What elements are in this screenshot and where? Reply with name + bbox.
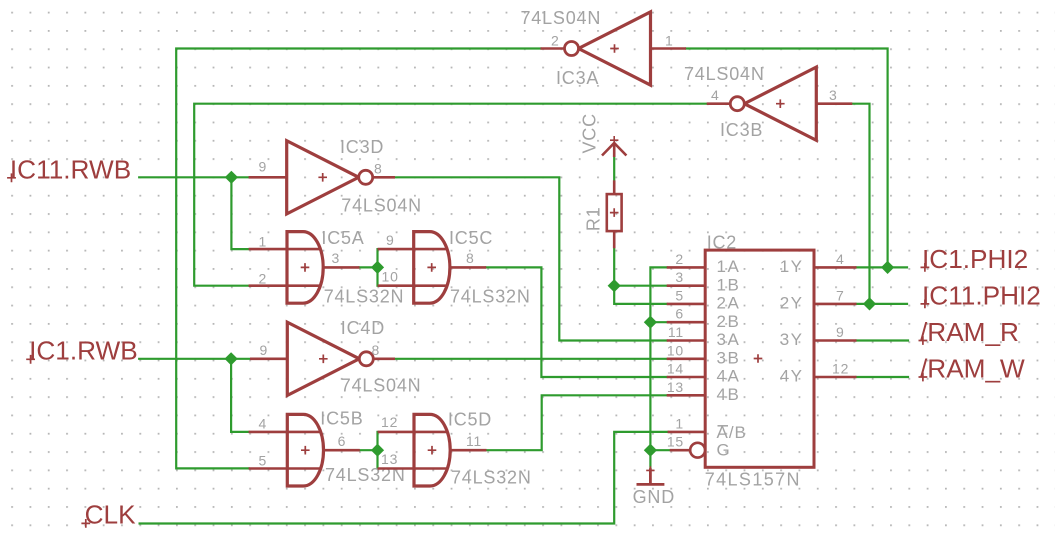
wire IC3D output to IC2 pin 11: [395, 177, 667, 340]
svg-text:1: 1: [665, 33, 674, 49]
wire branch to IC2 pin 6: [650, 321, 666, 323]
svg-text:2: 2: [259, 270, 268, 286]
resistor R1: [607, 180, 622, 248]
output pin IC5C: [450, 266, 486, 269]
wire junction to IC5D pin 12: [376, 432, 378, 450]
svg-text:3Y: 3Y: [780, 330, 804, 349]
pin 14 (4A) of IC2: [667, 376, 706, 379]
junction 2Y feedback: [863, 297, 876, 310]
svg-text:8: 8: [466, 250, 475, 266]
node IC11.RWB: [7, 154, 131, 184]
OR gate IC5B (74LS32N): [249, 414, 360, 486]
wire feedback 2Y to IC3B input: [852, 104, 869, 304]
svg-text:10: 10: [382, 269, 399, 285]
origin cross IC3D: [318, 173, 327, 182]
svg-text:74LS04N: 74LS04N: [521, 8, 602, 28]
origin cross IC5B: [301, 446, 310, 455]
wire IC1.RWB branch to IC5B pin 4: [231, 359, 249, 432]
svg-text:15: 15: [667, 433, 684, 449]
OR gate body IC5C: [414, 232, 450, 304]
wire branch to IC2 pin 15: [650, 449, 669, 451]
pin 9 (3Y) of IC2: [814, 339, 857, 342]
origin cross IC3A: [610, 44, 619, 53]
svg-text:9: 9: [836, 324, 845, 340]
input pin 1 IC5D: [378, 431, 448, 434]
origin cross IC2: [754, 354, 763, 363]
input pin 2 IC5D: [378, 467, 448, 470]
svg-text:IC3A: IC3A: [556, 68, 599, 88]
inverter bubble IC3A: [565, 42, 579, 56]
wire junction to IC5D pin 13: [376, 450, 378, 468]
input pin 2 IC5C: [378, 284, 447, 287]
inverter body IC3B: [744, 67, 816, 140]
inverter bubble IC3D: [359, 170, 373, 184]
OR gate body IC5A: [287, 232, 323, 304]
svg-text:4B: 4B: [717, 385, 741, 404]
svg-text:2: 2: [675, 251, 684, 267]
svg-text:G: G: [717, 441, 731, 460]
input pin 2 IC5B: [249, 467, 321, 470]
svg-text:IC2: IC2: [707, 233, 737, 253]
inverter IC3A (74LS04N, mirrored): [541, 12, 687, 85]
output pin IC5A: [323, 266, 359, 269]
wire net IC1.RWB to IC4D pin 9: [139, 358, 250, 360]
input pin IC3A: [651, 47, 687, 50]
multiplexer IC2 74LS157N box: [705, 250, 814, 467]
output pin IC3B: [707, 102, 731, 105]
svg-text:6: 6: [675, 306, 684, 322]
svg-text:8: 8: [372, 342, 381, 358]
inverter IC3B (74LS04N, mirrored): [707, 67, 853, 140]
ground symbol GND: [637, 466, 665, 484]
svg-text:74LS32N: 74LS32N: [450, 287, 531, 307]
junction IC1.RWB: [225, 352, 238, 365]
svg-text:11: 11: [668, 324, 684, 340]
junction IC5A output node: [371, 261, 384, 274]
svg-text:12: 12: [381, 414, 398, 430]
svg-text:IC1.PHI2: IC1.PHI2: [922, 244, 1028, 274]
svg-text:IC3B: IC3B: [720, 120, 763, 140]
origin cross IC5D: [428, 446, 437, 455]
junction GND column at pin 15: [644, 444, 657, 457]
wire IC4D output to IC2 pin 10: [395, 358, 667, 360]
output pin IC4D: [373, 357, 395, 360]
svg-text:IC5B: IC5B: [320, 409, 363, 429]
svg-text:5: 5: [675, 287, 684, 303]
pin 6 (2B) of IC2: [667, 321, 706, 324]
origin cross IC5C: [427, 263, 436, 272]
svg-text:74LS32N: 74LS32N: [324, 287, 405, 307]
svg-text:2B: 2B: [717, 312, 741, 331]
input pin 2 IC5A: [249, 284, 321, 287]
pin 5 (2A) of IC2: [667, 303, 706, 306]
svg-text:14: 14: [667, 361, 684, 377]
svg-text:9: 9: [260, 342, 269, 358]
node /RAM_R: [919, 317, 1019, 347]
wire IC5C output to IC2 pin 14: [486, 267, 667, 377]
svg-text:1: 1: [259, 233, 268, 249]
pin 10 (3B) of IC2: [667, 357, 706, 360]
svg-text:2A: 2A: [717, 294, 741, 313]
svg-text:8: 8: [374, 161, 383, 177]
svg-text:4A: 4A: [717, 367, 741, 386]
svg-text:1B: 1B: [717, 275, 741, 294]
svg-text:13: 13: [667, 379, 684, 395]
svg-text:3: 3: [675, 269, 684, 285]
wire branch to IC2 pin 5: [614, 286, 667, 304]
output pin IC5D: [450, 449, 486, 452]
input pin 1 IC5B: [249, 431, 321, 434]
wire junction to IC5C pin 10: [376, 267, 378, 285]
OR gate IC5A (74LS32N): [249, 232, 360, 304]
svg-text:R1: R1: [584, 206, 604, 231]
node IC1.RWB: [26, 336, 138, 366]
VCC supply symbol: [602, 136, 626, 157]
svg-text:9: 9: [386, 232, 395, 248]
node CLK: [81, 500, 136, 530]
svg-text:IC1.RWB: IC1.RWB: [29, 336, 138, 366]
wire IC5A output to junction: [359, 266, 377, 268]
node /RAM_W: [919, 354, 1026, 384]
input pin IC3D: [249, 176, 287, 179]
input pin 1 IC5C: [378, 248, 447, 251]
pin 2 (1A) of IC2: [667, 266, 706, 269]
svg-text:2: 2: [551, 33, 560, 49]
pin 13 (4B) of IC2: [667, 394, 706, 397]
svg-text:1A: 1A: [717, 257, 741, 276]
svg-text:IC3D: IC3D: [340, 137, 384, 157]
svg-text:1: 1: [675, 415, 684, 431]
input pin 1 IC5A: [249, 248, 321, 251]
wire IC2 pin 7 to net IC11.PHI2: [857, 303, 908, 305]
inverter IC4D (74LS04N): [250, 322, 395, 395]
pin 12 (4Y) of IC2: [814, 376, 857, 379]
svg-text:IC4D: IC4D: [341, 318, 385, 338]
svg-text:IC5D: IC5D: [448, 409, 492, 429]
svg-text:74LS04N: 74LS04N: [341, 375, 422, 395]
svg-text:2Y: 2Y: [780, 294, 804, 313]
node IC11.PHI2: [921, 280, 1041, 310]
wire IC5D output to IC2 pin 13: [487, 395, 667, 450]
svg-text:IC5A: IC5A: [321, 228, 364, 248]
wire IC11.RWB branch to IC5A pin 1: [231, 177, 248, 249]
svg-text:3: 3: [829, 87, 838, 103]
svg-text:6: 6: [338, 433, 347, 449]
input pin IC4D: [250, 357, 287, 360]
pin 11 (3A) of IC2: [667, 339, 706, 342]
inverter bubble IC3B: [730, 97, 744, 111]
junction IC11.RWB: [225, 171, 238, 184]
wire feedback 1Y to IC3A input: [686, 49, 888, 268]
wire net CLK to IC2 pin 1: [140, 432, 668, 524]
svg-text:IC11.RWB: IC11.RWB: [10, 154, 131, 184]
junction IC5B output node: [371, 444, 384, 457]
OR gate body IC5D: [414, 414, 450, 486]
wire IC2 pin 4 to net IC1.PHI2: [857, 266, 908, 268]
svg-text:4Y: 4Y: [780, 367, 804, 386]
svg-text:4: 4: [711, 87, 720, 103]
inverter body IC3A: [579, 12, 651, 85]
svg-text:/RAM_R: /RAM_R: [920, 317, 1019, 347]
pin 15 (G enable) of IC2 with inversion bubble: [670, 449, 690, 452]
svg-text:3: 3: [332, 250, 341, 266]
junction R1 to pins 3 and 5: [608, 279, 621, 292]
svg-text:VCC: VCC: [580, 113, 600, 153]
svg-text:74LS32N: 74LS32N: [451, 468, 532, 488]
svg-text:74LS04N: 74LS04N: [341, 196, 422, 216]
output pin IC5B: [324, 449, 360, 452]
pin 3 (1B) of IC2: [667, 284, 706, 287]
wire junction to IC5C pin 9: [376, 249, 378, 267]
wire IC3B output to IC5A pin 2: [194, 104, 707, 286]
op-amp-style inverter body IC3D: [287, 141, 359, 214]
inverter IC3D (74LS04N): [249, 141, 395, 214]
wire VCC to R1: [613, 157, 615, 180]
svg-text:10: 10: [667, 342, 684, 358]
origin cross IC3B: [776, 99, 785, 108]
wire R1 to IC2 pin 3: [614, 248, 667, 285]
svg-text:GND: GND: [633, 487, 675, 507]
svg-text:1Y: 1Y: [780, 257, 804, 276]
pin 4 (1Y) of IC2: [814, 266, 857, 269]
svg-text:74LS04N: 74LS04N: [684, 64, 765, 84]
pin 1 (A/B select) of IC2: [668, 431, 706, 434]
wire IC3A output to IC5B pin 5: [176, 49, 540, 469]
wire net IC11.RWB to IC3D pin 9: [139, 176, 248, 178]
OR gate IC5C (74LS32N): [378, 232, 487, 304]
wire IC5B output to junction: [359, 449, 377, 451]
node IC1.PHI2: [921, 244, 1029, 274]
svg-text:CLK: CLK: [85, 500, 136, 530]
junction GND column at pin 6: [644, 316, 657, 329]
inverter bubble IC4D: [359, 352, 373, 366]
svg-text:5: 5: [259, 453, 268, 469]
junction 1Y feedback: [881, 261, 894, 274]
svg-text:/RAM_W: /RAM_W: [920, 354, 1025, 384]
OR gate IC5D (74LS32N): [378, 414, 487, 486]
op-amp-style inverter body IC4D: [287, 322, 359, 395]
svg-text:9: 9: [259, 159, 268, 175]
svg-text:11: 11: [466, 433, 482, 449]
svg-text:13: 13: [381, 451, 398, 467]
svg-text:IC11.PHI2: IC11.PHI2: [922, 280, 1041, 310]
svg-text:4: 4: [836, 251, 845, 267]
svg-text:74LS157N: 74LS157N: [705, 469, 801, 489]
origin cross IC4D: [319, 355, 328, 364]
wire IC2 pin 12 to net /RAM_W: [857, 376, 909, 378]
input pin IC3B: [816, 102, 852, 105]
OR gate body IC5B: [287, 414, 323, 486]
wire IC2 pin 9 to net /RAM_R: [857, 339, 909, 341]
svg-text:12: 12: [832, 361, 849, 377]
origin cross IC5A: [301, 263, 310, 272]
svg-text:IC5C: IC5C: [449, 228, 493, 248]
svg-text:3B: 3B: [717, 348, 741, 367]
pin 7 (2Y) of IC2: [814, 303, 857, 306]
output pin IC3D: [373, 176, 395, 179]
svg-text:4: 4: [259, 416, 268, 432]
wire GND column to IC2 pin 2: [650, 267, 666, 468]
svg-text:7: 7: [836, 287, 845, 303]
output pin IC3A: [541, 47, 565, 50]
svg-text:3A: 3A: [717, 330, 741, 349]
